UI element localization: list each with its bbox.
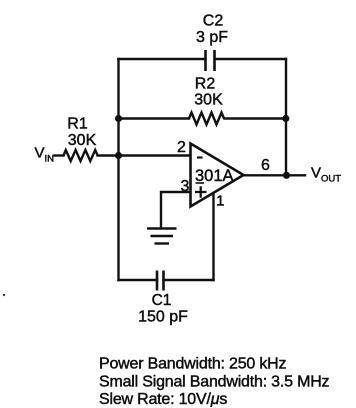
speck dot artifact — [3, 294, 5, 296]
svg-text:301A: 301A — [195, 167, 234, 185]
capacitor C2 plates — [206, 50, 215, 71]
op-amp mark under 301A — [196, 182, 205, 184]
wire R1 to inverting input pin 2 — [98, 154, 190, 156]
wire R2 left lead — [119, 117, 190, 119]
svg-text:3: 3 — [181, 178, 190, 195]
node junction dot input — [115, 152, 122, 159]
wire right vertical bus — [285, 59, 287, 175]
wire pin 1 down — [212, 195, 214, 281]
capacitor C1 plates — [157, 271, 164, 291]
resistor R2 30K zigzag — [189, 113, 224, 125]
node junction dot output — [283, 172, 290, 179]
wire bottom left to C1 — [119, 279, 158, 281]
wire output pin 6 — [244, 174, 306, 176]
svg-text:150 pF: 150 pF — [138, 309, 188, 326]
svg-text:C2: C2 — [203, 13, 224, 30]
svg-text:1: 1 — [216, 193, 224, 210]
wire R2 right lead — [225, 117, 287, 119]
svg-text:2: 2 — [177, 139, 186, 156]
svg-text:30K: 30K — [194, 92, 223, 109]
op-amp U1 301A triangle — [191, 144, 244, 207]
wire C1 to pin 1 — [164, 279, 214, 281]
svg-text:Power Bandwidth: 250 kHz: Power Bandwidth: 250 kHz — [99, 356, 287, 373]
svg-text:Small Signal Bandwidth: 3.5 MH: Small Signal Bandwidth: 3.5 MHz — [99, 374, 330, 391]
svg-text:30K: 30K — [68, 132, 97, 149]
svg-text:6: 6 — [261, 157, 270, 174]
node junction dot right R2 — [282, 115, 289, 122]
svg-text:VIN: VIN — [35, 145, 55, 165]
svg-text:R2: R2 — [195, 76, 216, 93]
svg-text:VOUT: VOUT — [311, 165, 341, 185]
resistor R1 30K zigzag — [64, 150, 98, 161]
node junction dot left R2 — [115, 115, 122, 122]
wire top from C2 to right bus — [215, 58, 287, 60]
svg-text:C1: C1 — [152, 292, 172, 309]
op-amp inverting input minus sign — [197, 156, 203, 158]
svg-text:R1: R1 — [67, 116, 88, 133]
ground symbol — [147, 229, 177, 244]
op-amp non-inverting plus sign — [195, 186, 207, 197]
svg-text:3 pF: 3 pF — [196, 29, 228, 46]
wire pin 3 to ground — [161, 192, 190, 228]
wire input lead from Vin — [55, 154, 64, 156]
wire left vertical bus — [117, 59, 119, 280]
wire top from left bus to C2 — [119, 58, 206, 60]
svg-text:Slew Rate: 10V/μs: Slew Rate: 10V/μs — [99, 391, 227, 408]
